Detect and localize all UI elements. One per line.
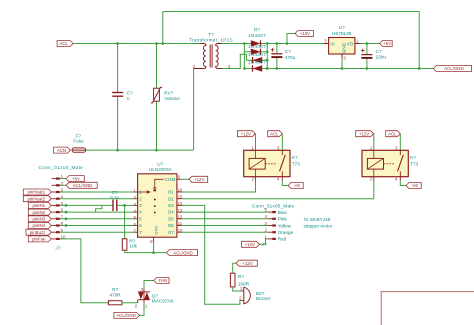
global label pinIN2 xyxy=(28,209,51,215)
wire row pin8 to IC input 6 xyxy=(60,225,134,227)
capacitor C? (X2 mains cap) xyxy=(112,90,133,101)
ULN repeat dots xyxy=(154,199,156,201)
svg-text:pinHeat1: pinHeat1 xyxy=(28,190,46,195)
svg-text:+12V: +12V xyxy=(245,242,255,247)
svg-text:1N4007: 1N4007 xyxy=(248,52,266,57)
wire bridge left vertical xyxy=(243,44,245,69)
svg-text:H2: H2 xyxy=(412,183,418,188)
regulator U? HS78L05 xyxy=(324,25,360,60)
wire staircase jog to cap xyxy=(96,205,102,212)
ULN left pin numbers 1-7 xyxy=(134,188,137,233)
svg-text:pinHeat2: pinHeat2 xyxy=(28,196,46,201)
wire vertical branch ACL row up to top rail xyxy=(162,12,164,44)
svg-text:+5V: +5V xyxy=(72,176,80,181)
svg-text:FAN: FAN xyxy=(159,278,168,283)
wire bridge row3 xyxy=(251,59,267,61)
global label ACL/GND (right) xyxy=(433,66,471,72)
wire pinFan down to gate resistor xyxy=(60,239,109,303)
svg-text:+12V: +12V xyxy=(241,131,251,136)
wire row pin7 to IC input 5 xyxy=(60,218,134,220)
power label +12V (ULN COM) xyxy=(189,176,208,182)
svg-text:pinIN4: pinIN4 xyxy=(32,223,45,228)
wire ACN row from fuse to transformer xyxy=(86,149,194,151)
svg-text:T?: T? xyxy=(208,32,214,37)
svg-text:Conn_01x10_Male: Conn_01x10_Male xyxy=(39,165,84,170)
svg-text:Buzzer: Buzzer xyxy=(256,296,271,301)
svg-text:ULN2003A: ULN2003A xyxy=(149,167,173,172)
relay K? T73 (right) xyxy=(356,131,419,182)
svg-text:pinBuzz: pinBuzz xyxy=(30,230,46,235)
svg-text:O4: O4 xyxy=(168,210,174,215)
capacitor C? 0.1u xyxy=(110,190,120,211)
svg-text:ACL/GND: ACL/GND xyxy=(173,250,193,255)
global label H2 xyxy=(406,183,421,189)
svg-text:ACL: ACL xyxy=(270,131,279,136)
svg-text:C?: C? xyxy=(376,49,382,54)
global label pinIN3 xyxy=(28,216,51,222)
ULN input names xyxy=(139,190,142,235)
wire ULN O3 down to buzzer xyxy=(182,205,241,304)
regulator pin 2 (GND) xyxy=(341,54,343,58)
global label ACL/GND (connector pin 2) xyxy=(66,182,97,188)
wire bridge right vertical xyxy=(266,44,268,69)
svg-text:pinIN3: pinIN3 xyxy=(32,217,45,222)
svg-text:H3: H3 xyxy=(294,183,300,188)
svg-text:+12V: +12V xyxy=(194,177,204,182)
ULN right pin stubs xyxy=(177,179,182,232)
svg-text:RV?: RV? xyxy=(164,90,173,95)
regulator pin 1 (VO) xyxy=(355,43,360,45)
global label pinIN1 xyxy=(28,202,51,208)
bridge value 1N4007 labels xyxy=(248,33,266,65)
wire resistor 470R to triac gate xyxy=(122,302,138,304)
ULN driver arrow input 1 xyxy=(138,191,147,193)
power label +12V (bridge output) xyxy=(295,31,313,37)
connector J? Conn_01x10_Male xyxy=(39,165,84,251)
svg-text:GND: GND xyxy=(154,226,159,235)
wire ULN O5 to stepper pin 4 xyxy=(182,218,269,220)
diode D3 1N4007 (points left) xyxy=(253,57,263,63)
wire ULN O2 to relay K?(2) coil xyxy=(182,181,374,199)
svg-text:Red: Red xyxy=(278,237,287,242)
op-amp U? ULN2003A body xyxy=(134,162,184,244)
wire right vertical from top rail down to ACL/GND row xyxy=(418,12,420,69)
junction dots AC section xyxy=(116,42,420,151)
junction ULN pin8 gnd xyxy=(152,251,155,254)
svg-text:VO: VO xyxy=(347,41,354,46)
diode D1 1N4007 (bridge top) xyxy=(251,40,261,46)
wire row pin4 to IC input 2 xyxy=(60,198,134,200)
svg-text:O6: O6 xyxy=(168,223,174,228)
svg-text:ACL: ACL xyxy=(388,131,397,136)
wire capacitor C? branch top xyxy=(117,44,119,93)
svg-text:Varistor: Varistor xyxy=(164,96,180,101)
svg-text:D?: D? xyxy=(254,27,260,32)
power label +12V (buzzer) xyxy=(236,260,257,266)
svg-text:J?: J? xyxy=(55,245,61,250)
transformer primary winding xyxy=(194,44,206,69)
wire +12V down to resistor 100R xyxy=(233,263,236,273)
note To 28-BYJ48 stepper motor xyxy=(304,217,333,228)
wire relay1 contact to H3 xyxy=(282,181,288,186)
connector J? Conn_01x05_Male (stepper) xyxy=(252,203,295,247)
svg-text:O7: O7 xyxy=(168,230,174,235)
svg-text:HS78L05: HS78L05 xyxy=(332,31,352,36)
wire row pin6 to IC input 4 xyxy=(60,211,134,213)
wire ULN O7 to stepper pin 2 xyxy=(182,231,269,233)
svg-text:O1: O1 xyxy=(168,190,174,195)
transformer core xyxy=(209,45,211,68)
svg-text:470u: 470u xyxy=(285,55,296,60)
wire triac MT1 down to ACL/GND xyxy=(140,303,145,315)
transformer secondary winding xyxy=(216,44,222,69)
svg-text:C?: C? xyxy=(127,90,133,95)
wire varistor branch bottom xyxy=(156,102,158,151)
power label +5V xyxy=(380,41,393,47)
svg-text:U?: U? xyxy=(157,162,163,167)
resistor R? 470R xyxy=(108,287,122,305)
wire cap 0.1u to IC input 3 xyxy=(117,204,133,206)
svg-text:Fuse: Fuse xyxy=(73,139,84,144)
wire regulator VO to +5V xyxy=(355,43,380,45)
global label pinBuzz xyxy=(26,229,51,235)
ULN pin 8 GND stub xyxy=(153,237,155,242)
wire pin1 to +5V xyxy=(60,178,66,180)
svg-text:1N4007: 1N4007 xyxy=(248,60,266,65)
buzzer BZ? xyxy=(239,286,271,304)
svg-text:1N4007: 1N4007 xyxy=(248,33,266,38)
global label pinHeat1 xyxy=(23,189,51,195)
global label ACL/GND (triac) xyxy=(114,312,140,318)
wire pin2 to ACL/GND xyxy=(60,184,66,186)
svg-text:VI: VI xyxy=(330,41,334,46)
wire cap 220u top xyxy=(366,44,368,55)
transformer T? Transformer_1P1S xyxy=(189,32,233,69)
global label ACL/GND (below ULN) xyxy=(166,250,197,256)
svg-text:C?: C? xyxy=(285,49,291,54)
wire row pin3 to IC input 1 xyxy=(60,191,134,193)
ULN left pin stubs xyxy=(134,192,138,232)
wire triac MT2 up to FAN xyxy=(144,281,154,289)
wire ULN O4 to stepper pin 5 xyxy=(182,211,269,213)
wire ULN O1 to relay K?(1) coil xyxy=(182,181,256,192)
wire ACL row from label to transformer primary xyxy=(73,43,199,45)
global label FAN xyxy=(154,278,169,284)
wire transformer primary bottom down to ACN row xyxy=(193,69,195,151)
power label +5V (connector pin 1) xyxy=(66,176,84,182)
wire bridge output row to regulator VI xyxy=(261,43,329,45)
transistor Q? MAC97A8 (triac) xyxy=(135,287,174,309)
wire transformer secondary bottom jog into bridge xyxy=(222,54,251,68)
svg-text:Orange: Orange xyxy=(278,230,294,235)
svg-text:0.1u: 0.1u xyxy=(110,195,120,200)
svg-text:O5: O5 xyxy=(168,216,174,221)
svg-text:GND: GND xyxy=(341,42,346,53)
svg-text:220u: 220u xyxy=(376,55,387,60)
junction dots connector rows xyxy=(65,204,126,227)
regulator pin 3 (VI) xyxy=(324,43,329,45)
svg-text:T73: T73 xyxy=(410,162,418,167)
wire cap 220u bottom xyxy=(366,58,368,69)
svg-text:Transformer_1P1S: Transformer_1P1S xyxy=(189,37,233,42)
wire +12V to stepper pin 1 (Red) xyxy=(259,239,268,244)
global label ACL xyxy=(57,41,73,47)
svg-text:ACN: ACN xyxy=(57,148,66,153)
wire resistor to buzzer pin 1 xyxy=(233,287,241,291)
wire row pin5 to cap 0.1u xyxy=(60,204,113,206)
svg-text:+12V: +12V xyxy=(359,131,369,136)
svg-text:T73: T73 xyxy=(292,162,300,167)
svg-text:O2: O2 xyxy=(168,196,174,201)
wire +12V branch at bridge output xyxy=(287,34,295,44)
svg-text:U?: U? xyxy=(339,25,345,30)
wire gnd net below ULN xyxy=(125,252,167,254)
power label +12V (stepper) xyxy=(242,241,260,247)
svg-text:pinIN2: pinIN2 xyxy=(32,210,45,215)
svg-text:R?: R? xyxy=(238,274,244,279)
svg-text:To 28-BYJ48: To 28-BYJ48 xyxy=(304,217,331,222)
svg-text:pinIN1: pinIN1 xyxy=(32,203,45,208)
svg-text:Q?: Q? xyxy=(152,293,159,298)
svg-text:ACL/GND: ACL/GND xyxy=(444,66,464,71)
svg-text:K?: K? xyxy=(292,155,298,160)
connector J? pin graphics and numbers xyxy=(52,174,67,240)
diode D2 1N4007 xyxy=(251,49,261,55)
wire cap 470u top xyxy=(276,44,278,54)
ULN output names xyxy=(168,190,174,235)
svg-text:pinFan: pinFan xyxy=(32,237,46,242)
wire varistor branch top xyxy=(156,44,158,89)
wire ground rail bottom of bridge to ACL/GND label xyxy=(244,68,433,70)
svg-text:Blue: Blue xyxy=(278,210,288,215)
svg-text:470R: 470R xyxy=(109,293,121,298)
global label ACN xyxy=(54,147,71,153)
global label H3 xyxy=(288,183,303,189)
svg-text:ACL/GND: ACL/GND xyxy=(73,183,93,188)
fuse F? xyxy=(72,133,86,152)
svg-text:Yellow: Yellow xyxy=(278,223,292,228)
resistor R? 100R xyxy=(230,273,249,287)
svg-text:Pink: Pink xyxy=(278,217,288,222)
global label pinFan xyxy=(28,236,51,242)
global label pinHeat2 xyxy=(23,196,51,202)
svg-text:+12V: +12V xyxy=(300,31,310,36)
svg-text:O3: O3 xyxy=(168,203,174,208)
svg-text:F?: F? xyxy=(75,133,81,138)
capacitor C? 220u (electrolytic) xyxy=(361,49,387,60)
varistor RV? xyxy=(151,87,181,103)
wire relay2 contact to H2 xyxy=(400,181,406,186)
svg-text:MAC97A8: MAC97A8 xyxy=(152,299,174,304)
wire bridge row2 xyxy=(244,51,267,53)
svg-text:R?: R? xyxy=(112,287,118,292)
svg-text:K?: K? xyxy=(410,155,416,160)
svg-text:1N4007: 1N4007 xyxy=(248,44,266,49)
ULN right pin numbers xyxy=(178,175,183,233)
svg-text:ACL: ACL xyxy=(59,41,68,46)
global label pinIN4 xyxy=(28,223,51,229)
diode D4 1N4007 (points left) xyxy=(253,65,263,71)
svg-text:COM: COM xyxy=(164,177,175,182)
svg-text:+12V: +12V xyxy=(242,261,252,266)
svg-text:10k: 10k xyxy=(129,244,137,249)
wire row pin9 to IC input 7 xyxy=(60,231,134,233)
wire regulator GND down xyxy=(341,54,343,69)
svg-text:Conn_01x05_Male: Conn_01x05_Male xyxy=(252,203,295,208)
svg-text:stepper motor: stepper motor xyxy=(304,223,333,228)
wire ULN O6 to stepper pin 3 xyxy=(182,225,269,227)
sheet border corner (bottom right) xyxy=(381,292,474,325)
wire top rail horizontal xyxy=(163,11,419,13)
wire ULN COM pin to +12V xyxy=(182,178,190,180)
relay K? T73 (left) xyxy=(237,131,300,182)
capacitor C? 470u (electrolytic) xyxy=(271,48,296,60)
svg-text:+5V: +5V xyxy=(383,41,391,46)
wire cap 470u bottom xyxy=(276,57,278,68)
svg-text:ACL/GND: ACL/GND xyxy=(116,313,136,318)
wire capacitor C? branch bottom xyxy=(117,96,119,150)
wire ULN pin8 down to gnd net xyxy=(153,242,155,253)
resistor R? 10k xyxy=(122,205,137,252)
wire transformer secondary top to bridge xyxy=(222,43,251,45)
